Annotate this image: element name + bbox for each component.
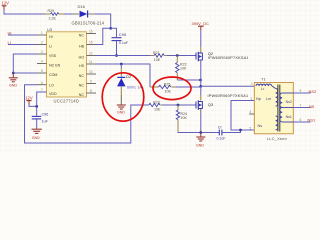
svg-text:12V: 12V: [2, 1, 10, 6]
node HB junction: [109, 27, 112, 30]
resistor R25 duplicate 10E: [150, 82, 176, 93]
winding Lr: [256, 84, 276, 91]
winding internal links: [282, 93, 293, 122]
pin names left: [49, 35, 61, 96]
svg-text:NS2: NS2: [309, 89, 318, 94]
svg-text:N5: N5: [309, 104, 315, 109]
node R24 top junction: [177, 104, 180, 107]
svg-text:0.1uF: 0.1uF: [119, 41, 129, 45]
wire HS rail: [87, 64, 151, 87]
svg-text:LI: LI: [49, 44, 52, 48]
transistor Q3 IPW60R060P7XKSA1: [194, 94, 248, 110]
wire D16 to HB node: [95, 14, 111, 28]
svg-text:VSS: VSS: [49, 54, 57, 58]
wire R23 to Q3 gate: [162, 104, 194, 106]
wire R25 to D16: [64, 13, 72, 15]
svg-text:R23: R23: [153, 101, 160, 105]
resistor R23 10E: [149, 101, 162, 112]
wire Cr to transformer pin3: [222, 101, 254, 133]
svg-text:D16: D16: [78, 4, 86, 9]
svg-text:3: 3: [251, 97, 253, 101]
pin stub NC16 (unconnected): [87, 33, 97, 35]
pin numbers right: [89, 30, 93, 93]
svg-text:VDD: VDD: [49, 92, 57, 96]
pin stub NC10: [87, 73, 97, 75]
wire Q3 source down: [200, 109, 202, 133]
IC U3 UCC27714D body: [47, 27, 87, 103]
node VDD junction: [35, 105, 38, 108]
node Q3 source junction: [199, 131, 202, 134]
svg-text:Np: Np: [256, 97, 261, 101]
wire NS1: [293, 118, 316, 123]
wire R25dup to switch node: [176, 86, 201, 88]
svg-text:IPW60R060P7XKSA1: IPW60R060P7XKSA1: [208, 94, 249, 98]
wire switch node to transformer: [201, 85, 255, 87]
node R22 top junction: [176, 54, 179, 57]
pin stub COM: [37, 72, 47, 74]
resistor R25 (2.2E): [45, 9, 64, 20]
background canvas: [0, 0, 320, 152]
wire node down to Q3 drain: [200, 86, 202, 100]
diode D16 GB01SLT06-214: [72, 4, 105, 26]
wire VDD to 12V and C96: [29, 92, 47, 106]
svg-text:10K: 10K: [180, 67, 187, 71]
wire junction to C95: [111, 28, 117, 37]
svg-text:GND: GND: [196, 144, 204, 148]
ground GND (D2): [117, 105, 126, 115]
svg-text:UCC27714D: UCC27714D: [54, 98, 80, 103]
svg-text:COM: COM: [49, 73, 57, 77]
svg-text:LO: LO: [49, 84, 54, 88]
svg-text:NC: NC: [79, 83, 85, 87]
node COM junction: [12, 72, 15, 75]
wire source rail: [178, 131, 219, 134]
svg-text:HO: HO: [79, 55, 85, 59]
ground GND (C96): [32, 129, 42, 140]
svg-text:LLC_Xsmr: LLC_Xsmr: [267, 136, 288, 141]
pin stub VDD: [37, 91, 47, 93]
pin stub NC8: [87, 92, 97, 94]
svg-text:10K: 10K: [181, 116, 188, 120]
wire R22 bottom to source node: [177, 79, 202, 82]
svg-text:12V: 12V: [25, 95, 33, 100]
svg-text:0.1uF: 0.1uF: [217, 136, 226, 140]
wire Q2 source down: [200, 60, 202, 86]
svg-text:GND: GND: [32, 136, 40, 140]
wire HB pin stub: [87, 44, 97, 46]
svg-text:Q3: Q3: [208, 102, 214, 107]
wire HO rail: [87, 55, 151, 57]
pin number 5 (xfmr): [250, 126, 252, 130]
pin stub LO: [37, 84, 47, 86]
pin numbers left: [41, 31, 43, 92]
net label HI: [8, 30, 38, 35]
resistor R21 10E: [150, 51, 167, 62]
annotation ellipse (R25 duplicate): [153, 77, 191, 100]
ground GND (COM/VSS): [9, 73, 18, 87]
svg-text:Ns1: Ns1: [286, 115, 292, 119]
capacitor C95 0.1uF: [112, 32, 129, 56]
capacitor C96 1uF: [32, 106, 49, 128]
svg-text:HB: HB: [79, 44, 85, 48]
svg-text:7: 7: [300, 104, 302, 108]
svg-text:1uF: 1uF: [42, 120, 49, 124]
winding Lm/Np (primary): [256, 89, 278, 107]
wire N5: [293, 104, 315, 110]
diode D2 (HS clamp): [117, 64, 142, 105]
winding Ns2 (secondary top): [280, 93, 292, 107]
winding Ns1 (secondary bottom): [280, 108, 292, 122]
pin number 3 (xfmr): [251, 97, 253, 101]
pin stub LI: [37, 44, 47, 46]
svg-text:GND: GND: [117, 111, 125, 115]
power port 12V (top left): [2, 1, 10, 10]
wire LO routing to bottom rail: [25, 85, 149, 143]
svg-text:U3: U3: [47, 27, 53, 32]
wire junction to HB pin: [96, 28, 111, 44]
wire R21 to Q2 gate: [167, 55, 194, 57]
pin names right: [79, 33, 85, 97]
svg-text:C95: C95: [119, 32, 127, 37]
svg-text:R21: R21: [153, 51, 160, 55]
svg-text:390V_DC: 390V_DC: [192, 21, 209, 26]
svg-text:HI: HI: [49, 35, 53, 39]
svg-text:NC: NC: [79, 33, 85, 37]
svg-text:R25: R25: [48, 9, 55, 13]
svg-text:HS: HS: [79, 64, 85, 68]
wire COM: [13, 72, 37, 74]
node C95/HO junction: [115, 54, 118, 57]
svg-text:2.2E: 2.2E: [49, 17, 57, 21]
svg-text:T1: T1: [261, 76, 266, 81]
transformer core: [278, 85, 280, 132]
svg-text:10E: 10E: [165, 89, 172, 93]
svg-text:NC: NC: [79, 74, 85, 78]
pin stub VSS: [37, 53, 47, 55]
svg-text:GND: GND: [9, 83, 17, 87]
power port 390V_DC: [192, 21, 209, 30]
svg-text:10E: 10E: [154, 58, 161, 62]
wire NS2: [293, 89, 317, 94]
wire 390V to Q2 drain: [200, 30, 202, 53]
resistor R22 10K (vertical): [176, 56, 187, 81]
svg-text:NS1: NS1: [308, 118, 317, 123]
svg-text:R25: R25: [164, 82, 171, 86]
svg-text:C96: C96: [42, 113, 49, 117]
svg-text:Lm: Lm: [266, 97, 271, 101]
transistor Q2 IPW60R060P7XKSA1: [194, 51, 248, 61]
transformer T1 body: [254, 76, 293, 140]
net label LI: [8, 40, 38, 45]
capacitor Cr 0.1uF: [217, 126, 226, 141]
svg-text:Ns2: Ns2: [286, 100, 292, 104]
svg-text:600V, 1A: 600V, 1A: [127, 86, 142, 90]
annotation ellipse (D2): [102, 73, 144, 121]
pin stub NC EN (unconnected): [37, 63, 47, 65]
node D2 junction: [120, 63, 123, 66]
svg-text:6: 6: [300, 118, 302, 122]
wire 12V to R25: [4, 10, 45, 14]
winding Ns (aux, bottom-left): [258, 116, 278, 130]
svg-text:5: 5: [250, 126, 252, 130]
svg-text:Ns: Ns: [258, 124, 263, 128]
svg-text:NC: NC: [79, 93, 85, 97]
svg-text:10E: 10E: [154, 107, 161, 111]
wire VSS to GND column: [13, 54, 37, 73]
svg-text:IPW60R060P7XKSA1: IPW60R060P7XKSA1: [208, 56, 249, 60]
pin number 4 (xfmr): [250, 110, 252, 114]
node switch node junction: [199, 85, 202, 88]
svg-text:9: 9: [300, 89, 302, 93]
pin stub HI: [37, 34, 47, 36]
resistor R24 10K (vertical): [176, 105, 187, 132]
wire xfmr pin4 loop: [249, 113, 254, 115]
ground GND (Q3 source): [196, 133, 205, 148]
svg-text:GB01SLT06-214: GB01SLT06-214: [72, 20, 105, 25]
pin stub NC9: [87, 83, 97, 85]
pin number 1 (xfmr): [251, 82, 253, 86]
svg-text:NC EN: NC EN: [49, 63, 61, 67]
power port 12V (VDD): [25, 95, 33, 104]
svg-text:1: 1: [251, 82, 253, 86]
